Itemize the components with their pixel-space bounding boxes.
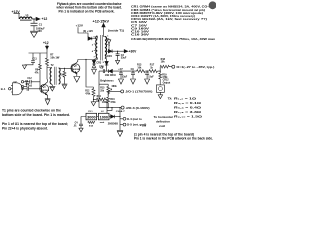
svg-text:Pin 22+4 is physically absent.: Pin 22+4 is physically absent. — [2, 126, 48, 130]
ground under T2 — [49, 86, 55, 91]
svg-text:T1 pins are counted clockwise: T1 pins are counted clockwise on the — [2, 109, 61, 113]
svg-text:33uF: 33uF — [122, 77, 128, 79]
svg-text:To horizontal: To horizontal — [154, 115, 173, 119]
wire down to spark gap row — [107, 108, 112, 111]
svg-text:coil: coil — [142, 125, 146, 128]
resistor R14 — [94, 95, 108, 104]
svg-text:470k: 470k — [110, 101, 116, 104]
svg-text:R19: R19 — [162, 74, 167, 76]
svg-text:J/O-1 (170/750V): J/O-1 (170/750V) — [125, 90, 152, 94]
svg-text:5M: 5M — [96, 101, 99, 103]
wire T1 secondary top to HV arrow — [104, 34, 105, 37]
svg-text:(3) +12V: (3) +12V — [83, 31, 94, 33]
connector O-3 — [121, 106, 150, 110]
wire bus up to R18 — [159, 67, 161, 71]
wire R4 to Q1 base — [29, 88, 42, 90]
svg-text:R15: R15 — [100, 88, 105, 90]
transformer T2 core — [54, 67, 56, 85]
svg-text:coil: coil — [159, 124, 165, 128]
svg-text:10k: 10k — [137, 66, 142, 69]
junction on +12 rail — [33, 18, 34, 19]
svg-text:3000: 3000 — [87, 116, 96, 120]
svg-text:+12: +12 — [43, 41, 49, 45]
spark gap box 1000 — [98, 113, 109, 124]
wire T2 primary top to R7 — [47, 67, 52, 70]
wire from +12V down to L1 — [14, 14, 21, 19]
diode CR2 — [88, 37, 92, 40]
diode CR10 on bus — [105, 69, 117, 77]
svg-text:R₅,₆ = 0.4Ω: R₅,₆ = 0.4Ω — [174, 106, 202, 110]
svg-text:1: 1 — [107, 35, 109, 37]
svg-text:(inside T1): (inside T1) — [108, 29, 124, 32]
resistor R12 to ground — [85, 87, 95, 99]
diode CR5 — [99, 61, 108, 68]
table TX resistor values — [168, 97, 204, 119]
svg-text:47k: 47k — [35, 71, 40, 74]
svg-text:1000: 1000 — [100, 116, 109, 120]
svg-text:Output: Output — [163, 81, 171, 84]
svg-text:2N3904: 2N3904 — [41, 89, 49, 92]
svg-text:25k: 25k — [100, 91, 105, 93]
connector In-2 — [21, 81, 27, 88]
svg-text:CR4: CR4 — [107, 55, 113, 58]
ground bottom middle — [117, 130, 123, 136]
resistor R7 — [46, 53, 61, 68]
svg-text:C6 4.7: C6 4.7 — [116, 110, 126, 113]
svg-text:R₁,₂ = 1Ω: R₁,₂ = 1Ω — [174, 97, 197, 101]
svg-text:.01: .01 — [73, 125, 77, 127]
svg-text:C9: C9 — [131, 68, 135, 71]
wire gate to R4 — [23, 88, 27, 90]
capacitor C7 to ground — [118, 68, 127, 84]
svg-text:C12: C12 — [27, 78, 32, 80]
svg-text:watt: watt — [100, 121, 105, 124]
wire T1 pin to CR4 — [107, 50, 109, 52]
junction R12 bottom — [93, 99, 94, 100]
label CR12 output — [163, 79, 171, 84]
resistor R8 from rail to base — [35, 53, 42, 74]
svg-text:Q5: Q5 — [74, 66, 78, 68]
svg-text:R₃,₄ = 0.1Ω: R₃,₄ = 0.1Ω — [174, 101, 202, 105]
svg-text:R16: R16 — [110, 99, 115, 101]
resistor under box — [88, 121, 95, 127]
capacitor C12 — [24, 78, 40, 88]
wire CR4 to +30V — [112, 50, 124, 52]
vertical rail below bus — [98, 71, 100, 108]
svg-text:In-1: In-1 — [1, 87, 6, 91]
svg-text:470k: 470k — [85, 93, 91, 96]
junction at deflection branch — [111, 107, 112, 108]
regulator box U3 — [156, 82, 164, 93]
wire diode to vertical — [114, 116, 120, 118]
svg-text:R₇,₈ = 3.3Ω: R₇,₈ = 3.3Ω — [174, 110, 202, 114]
node +12V feed to T1 — [76, 24, 88, 37]
wire T1 primary bottom to CR3 — [94, 58, 97, 60]
svg-text:+12V: +12V — [12, 10, 21, 14]
svg-text:1k: 1k — [150, 66, 153, 69]
svg-text:7: 7 — [94, 56, 96, 58]
ground under box — [158, 92, 162, 98]
capacitor C3 — [116, 51, 127, 59]
connector In-1 — [1, 87, 13, 91]
wire pot rail — [99, 84, 108, 86]
svg-text:10k: 10k — [161, 61, 166, 64]
svg-text:C16 36V: C16 36V — [131, 33, 149, 37]
junction deflection — [119, 116, 120, 117]
svg-text:680k: 680k — [112, 86, 118, 88]
wire Q5 collector to T1 primary — [78, 58, 98, 60]
connector O-1 — [121, 90, 153, 94]
wire T1 secondary bottom to CR5 — [106, 58, 108, 61]
svg-text:10k 1W: 10k 1W — [50, 56, 60, 59]
node +30V arrow — [124, 50, 137, 54]
resistor R10 to ground — [60, 68, 68, 89]
wire Q1 emitter to ground — [47, 95, 49, 98]
svg-text:+C7: +C7 — [118, 68, 123, 71]
svg-text:C1: C1 — [39, 22, 43, 26]
svg-text:3: 3 — [92, 44, 94, 46]
svg-text:C4: C4 — [75, 121, 79, 124]
wire T2 primary bottom to ground — [51, 84, 54, 86]
T1 pin numbers — [92, 35, 111, 64]
junction bus at C9 — [132, 71, 133, 72]
resistor R17 — [149, 64, 157, 73]
capacitor C11 to ground — [22, 53, 37, 69]
svg-text:+30V: +30V — [129, 50, 138, 54]
capacitor R4 coupling — [25, 80, 30, 91]
capacitor C9 to ground — [131, 68, 136, 84]
resistor R16 — [107, 94, 116, 107]
svg-text:bottom side of the board. Pin: bottom side of the board. Pin 1 is marke… — [2, 113, 70, 117]
ground under Q1 — [45, 99, 51, 105]
capacitor C1 — [31, 22, 46, 33]
svg-text:+12-15kV: +12-15kV — [93, 20, 110, 24]
transformer T2 right winding — [59, 68, 61, 84]
svg-text:TX:: TX: — [168, 97, 173, 101]
svg-text:MJE340: MJE340 — [72, 68, 80, 71]
svg-text:C5 1: C5 1 — [88, 111, 93, 113]
wire T2 secondary top to Q5 base — [59, 67, 72, 69]
ground under C3 — [116, 55, 120, 64]
gate U2 — [11, 82, 23, 95]
svg-text:4: 4 — [92, 50, 94, 53]
junction at C3 tap — [117, 51, 118, 52]
capacitor C4 — [73, 121, 83, 127]
transformer T1 flyback left winding — [96, 36, 98, 58]
wire R14 down to box — [106, 99, 108, 113]
wire left stub to C4 — [81, 117, 86, 125]
transistor Q5 — [71, 60, 81, 77]
wire L1 to arrow — [32, 18, 36, 20]
svg-text:L1: L1 — [26, 13, 30, 17]
T1 pin stubs — [94, 44, 108, 51]
pot R15 brightness — [100, 86, 117, 95]
svg-text:CR12: CR12 — [163, 79, 170, 81]
ground under R12 — [91, 99, 96, 105]
diode CR3 — [92, 60, 102, 67]
ground under Q5 — [74, 77, 80, 83]
svg-text:L2: L2 — [101, 111, 104, 113]
spark gap box 3000 — [86, 113, 97, 120]
inductor L1 — [20, 13, 32, 20]
svg-text:R₉,₁₀ = 1.5Ω: R₉,₁₀ = 1.5Ω — [174, 115, 203, 119]
junction collector node — [85, 59, 86, 60]
wire C1 to ground — [33, 26, 35, 32]
svg-text:Q1: Q1 — [43, 87, 47, 89]
connector O-5 — [120, 123, 147, 127]
ground under C4 — [79, 126, 83, 132]
resistor R18 — [160, 58, 171, 68]
connector O-1 out — [172, 65, 215, 69]
node +12 arrow right — [36, 17, 47, 21]
svg-text:9: 9 — [103, 62, 105, 64]
svg-text:Brightness: Brightness — [100, 79, 114, 83]
svg-text:2N5568: 2N5568 — [108, 123, 119, 126]
svg-text:Pin 1 of U1 is nearest the top: Pin 1 of U1 is nearest the top of the bo… — [2, 122, 68, 126]
resistor R13 — [137, 64, 145, 73]
wire pot to connector O-1 — [108, 91, 120, 95]
svg-text:+12V: +12V — [76, 24, 84, 28]
ground under C1 — [30, 31, 38, 37]
transistor Q1 — [40, 80, 50, 95]
svg-text:J/O-3 (0-160V): J/O-3 (0-160V) — [126, 106, 150, 110]
svg-text:O-4 (out to: O-4 (out to — [127, 118, 143, 121]
svg-text:O=1(~27 to ~35V, typ.): O=1(~27 to ~35V, typ.) — [176, 65, 214, 69]
svg-text:E14: E14 — [89, 125, 94, 128]
junction base node — [39, 88, 40, 89]
diode D output — [108, 115, 119, 126]
svg-text:33uF: 33uF — [121, 57, 127, 60]
svg-text:R12: R12 — [85, 91, 90, 93]
transformer T2 left winding — [50, 68, 51, 84]
diode CR4 — [107, 50, 113, 59]
arrow on HV return wire — [107, 39, 111, 51]
wire between boxes — [97, 116, 99, 118]
junction at R16 bottom — [108, 107, 109, 108]
svg-text:15uF: 15uF — [148, 77, 154, 79]
svg-text:Pin 1 is marked in the PCB art: Pin 1 is marked in the PCB artwork on th… — [134, 136, 213, 140]
svg-text:T2: T2 — [51, 64, 55, 67]
svg-text:R8: R8 — [35, 69, 39, 71]
node +12 drive rail arrow — [43, 41, 49, 53]
wire down to C1 — [33, 19, 35, 23]
svg-text:16V: 16V — [38, 30, 43, 33]
wire bottom rail to O-3 — [99, 107, 121, 109]
svg-text:deflection: deflection — [156, 119, 170, 123]
ground arrow under CR3 — [92, 68, 97, 75]
svg-text:Pin 1 is indicated on the PCB: Pin 1 is indicated on the PCB artwork. — [59, 10, 115, 14]
capacitor C8 series in bus — [100, 67, 104, 73]
svg-text:R10: R10 — [60, 75, 65, 77]
transformer T1 right winding — [105, 37, 107, 59]
resistor R19 vertical — [159, 71, 168, 82]
label to horizontal deflection coil — [142, 115, 173, 128]
svg-text:10Ω CR10: 10Ω CR10 — [105, 75, 117, 77]
logo dot top right corner — [209, 1, 217, 9]
junction bus at C7 — [120, 71, 121, 72]
vertical deflection rail — [119, 108, 121, 131]
wire CR2 to T1 pin — [92, 36, 98, 39]
connector O-4 — [120, 117, 142, 121]
+12 drive rail — [29, 52, 48, 54]
wire R8 down to base node — [39, 71, 41, 89]
svg-text:C8 BK49(400V)CR8 2kVCR9 750: C8 BK49(400V)CR8 2kVCR9 750ns, 10A, 40W … — [131, 37, 215, 41]
svg-text:CR3: CR3 — [96, 62, 101, 65]
wire Q1 collector up — [46, 68, 49, 81]
wire CR5 to bus — [106, 65, 108, 71]
svg-text:+12: +12 — [42, 17, 48, 21]
node +12-15kV HV output — [93, 20, 110, 34]
capacitor C10 to ground — [145, 71, 155, 85]
wire feedback drop — [86, 60, 94, 88]
main B+ bus — [99, 70, 160, 72]
transformer T1 core — [100, 35, 102, 61]
